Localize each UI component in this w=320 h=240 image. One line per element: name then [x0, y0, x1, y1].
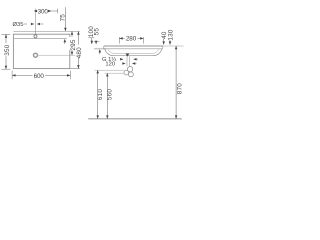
svg-text:480: 480	[76, 47, 83, 59]
svg-text:130: 130	[167, 29, 174, 41]
drain ring	[34, 53, 38, 57]
svg-text:610: 610	[97, 89, 104, 101]
dim 100 (left of front view)	[88, 26, 95, 44]
plan view outer rect	[13, 34, 69, 68]
svg-text:600: 600	[34, 73, 45, 80]
dim 40 (right of front view)	[161, 31, 168, 45]
dim 480	[70, 31, 83, 68]
dim 350	[2, 34, 12, 69]
dim 870	[175, 46, 184, 119]
faucet hole circle	[34, 35, 37, 38]
dim 610	[96, 70, 104, 119]
leader line to siphon 560	[105, 72, 124, 74]
dim 55 (left of front view)	[94, 28, 107, 55]
leader line to siphon 610	[95, 69, 125, 71]
dim 560	[106, 73, 114, 119]
faucet centerline	[34, 9, 36, 35]
dim 280	[119, 36, 143, 44]
svg-text:120: 120	[105, 61, 115, 67]
plan view deck line	[14, 38, 67, 40]
dim 130 (right of front view)	[167, 29, 174, 45]
svg-text:280: 280	[126, 36, 137, 43]
label D35	[13, 22, 44, 28]
floor line	[88, 118, 182, 120]
dim 600	[12, 71, 70, 80]
front view bowl inner	[108, 49, 159, 54]
front view rim top	[104, 45, 163, 47]
wall reference line behind plan view	[13, 30, 79, 32]
svg-text:55: 55	[94, 28, 101, 36]
drain hole mark	[126, 54, 130, 57]
dim 295	[69, 31, 77, 55]
svg-text:870: 870	[177, 83, 184, 95]
svg-text:300: 300	[38, 9, 49, 16]
front view rim inner line	[104, 48, 163, 50]
rim top extension tick (right)	[163, 45, 184, 47]
label G 1 1/4	[102, 57, 138, 63]
siphon icon circles	[124, 67, 133, 77]
svg-text:Ø35: Ø35	[13, 22, 24, 28]
drain leader line	[38, 54, 75, 56]
dim 75	[60, 7, 67, 44]
dim 300	[34, 8, 58, 15]
svg-text:75: 75	[60, 14, 67, 22]
svg-text:560: 560	[107, 89, 114, 101]
label 120	[105, 61, 136, 67]
front view bowl outer	[105, 49, 162, 56]
front view rim ends	[104, 46, 163, 49]
svg-text:350: 350	[4, 44, 11, 56]
drain stub pipe	[127, 56, 129, 66]
